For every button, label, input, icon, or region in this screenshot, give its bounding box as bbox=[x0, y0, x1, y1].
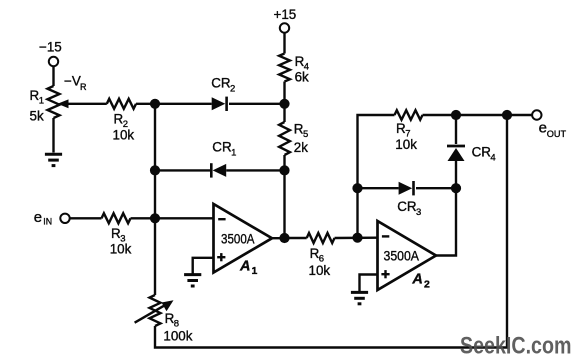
svg-text:A: A bbox=[239, 258, 250, 274]
svg-text:1: 1 bbox=[252, 265, 258, 277]
svg-text:3500A: 3500A bbox=[384, 249, 420, 264]
svg-text:10k: 10k bbox=[395, 137, 417, 152]
svg-text:4: 4 bbox=[490, 152, 495, 163]
svg-text:2k: 2k bbox=[294, 140, 308, 155]
svg-text:−V: −V bbox=[64, 74, 81, 89]
svg-text:CR: CR bbox=[472, 144, 492, 159]
svg-text:R: R bbox=[80, 82, 87, 92]
svg-text:1: 1 bbox=[231, 148, 236, 159]
svg-text:e: e bbox=[34, 209, 42, 226]
svg-text:e: e bbox=[539, 119, 547, 136]
svg-text:CR: CR bbox=[212, 140, 232, 155]
svg-text:A: A bbox=[411, 271, 422, 287]
svg-text:10k: 10k bbox=[113, 128, 135, 143]
svg-text:3: 3 bbox=[416, 207, 421, 218]
svg-text:2: 2 bbox=[424, 278, 430, 290]
svg-text:−15: −15 bbox=[39, 40, 62, 55]
svg-text:10k: 10k bbox=[309, 263, 331, 278]
svg-text:IN: IN bbox=[43, 217, 52, 227]
svg-text:2: 2 bbox=[230, 84, 235, 95]
svg-text:5: 5 bbox=[303, 129, 308, 140]
svg-text:10k: 10k bbox=[110, 241, 132, 256]
svg-text:+15: +15 bbox=[274, 7, 297, 22]
svg-text:100k: 100k bbox=[163, 329, 192, 344]
svg-text:3500A: 3500A bbox=[221, 231, 255, 246]
svg-text:CR: CR bbox=[211, 76, 231, 91]
svg-text:5k: 5k bbox=[30, 109, 44, 124]
svg-text:6k: 6k bbox=[295, 70, 309, 85]
svg-text:CR: CR bbox=[397, 199, 417, 214]
svg-text:SeekIC.com: SeekIC.com bbox=[460, 333, 572, 360]
svg-text:1: 1 bbox=[39, 96, 44, 107]
svg-text:OUT: OUT bbox=[547, 129, 567, 139]
